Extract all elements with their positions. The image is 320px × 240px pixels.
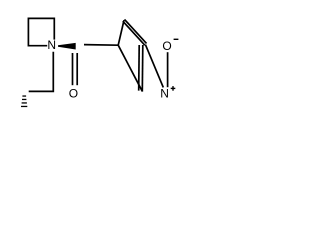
bond N+ to O-	[167, 52, 169, 87]
hashed wedge bond to methyl: dash 4	[21, 106, 27, 107]
bond C to N+	[145, 45, 163, 88]
svg-text:O: O	[69, 87, 78, 101]
wedge bond N1 to carbonyl C	[58, 43, 76, 50]
azetidine ring bonds	[28, 18, 54, 45]
ring double bond B=C line 1	[125, 19, 147, 43]
plus charge on N: vertical bar	[172, 86, 173, 91]
hashed wedge bond to methyl: dash 3	[22, 102, 27, 103]
svg-text:O: O	[162, 39, 171, 53]
minus charge on O	[174, 39, 179, 40]
bond carbonyl C to ring atom A	[84, 44, 118, 47]
bond N1 to CH2 of propyl	[29, 52, 54, 92]
ring double bond C=D line 2	[138, 45, 141, 91]
hashed wedge bond to methyl: dash 2	[22, 99, 26, 100]
hashed wedge bond to methyl: dash 1	[22, 95, 26, 96]
carbonyl C=O double bond line 1	[72, 53, 74, 85]
plus charge on N: horizontal bar	[171, 88, 176, 89]
svg-text:N: N	[47, 38, 56, 52]
ring bond A-B	[118, 20, 124, 45]
ring double bond B=C line 2	[123, 21, 145, 45]
ring double bond C=D line 1	[141, 45, 144, 92]
carbonyl C=O double bond line 2	[76, 53, 78, 85]
svg-text:N: N	[160, 86, 169, 100]
ring bond A-D	[118, 45, 142, 91]
